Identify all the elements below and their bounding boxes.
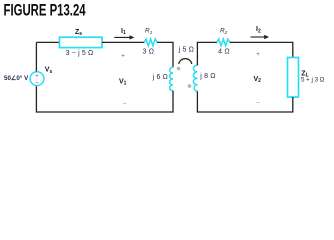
coupling dot secondary: [188, 84, 191, 87]
resistor R2: [217, 39, 230, 46]
svg-text:+: +: [256, 52, 260, 58]
current arrow I2: [251, 26, 270, 39]
load ZL box: [288, 58, 299, 98]
wire: source top to mesh1 top-left corner: [35, 42, 37, 71]
svg-text:V2: V2: [254, 76, 262, 84]
coupling dot primary: [177, 67, 180, 70]
svg-text:3 Ω: 3 Ω: [142, 49, 154, 56]
wire: Zs to R1: [102, 41, 144, 43]
svg-text:5 + j 3 Ω: 5 + j 3 Ω: [301, 77, 325, 84]
svg-text:FIGURE P13.24: FIGURE P13.24: [4, 2, 86, 21]
svg-text:−: −: [256, 100, 260, 107]
svg-text:R1: R1: [145, 28, 153, 36]
svg-text:j 5 Ω: j 5 Ω: [178, 46, 194, 53]
svg-text:Vs: Vs: [45, 67, 53, 75]
inductor L1 j6 coil: [170, 67, 173, 91]
wire: R1 to mesh1 top-right corner, down to coil: [157, 42, 173, 67]
resistor R1: [144, 39, 157, 46]
svg-text:−: −: [123, 101, 127, 108]
voltage source Vs: [30, 72, 44, 86]
wire: coil1 bottom to bottom-left loop: [36, 85, 173, 112]
svg-text:V1: V1: [119, 79, 127, 87]
svg-text:R2: R2: [220, 28, 228, 36]
mutual coupling arc j5: [179, 59, 192, 64]
svg-text:j 8 Ω: j 8 Ω: [199, 73, 215, 80]
inductor L2 j8 coil: [193, 65, 197, 91]
svg-text:3 − j 5 Ω: 3 − j 5 Ω: [66, 50, 94, 57]
impedance Zs box: [60, 37, 103, 47]
wire: mesh1 top-left segment: [36, 41, 59, 43]
svg-text:−: −: [35, 79, 39, 86]
wire: ZL bottom to mesh2 bottom-left, up to coil2: [197, 91, 292, 112]
svg-text:50∠0° V: 50∠0° V: [4, 75, 29, 82]
svg-text:4 Ω: 4 Ω: [218, 49, 230, 56]
svg-text:I1: I1: [121, 28, 126, 36]
svg-text:+: +: [121, 54, 125, 60]
wire: coil2 top to R2: [197, 42, 217, 65]
current arrow I1: [114, 28, 134, 40]
svg-text:Zs: Zs: [75, 29, 82, 37]
wire: R2 to mesh2 top-right corner down to ZL: [230, 42, 293, 57]
svg-text:I2: I2: [256, 26, 261, 34]
svg-text:j 6 Ω: j 6 Ω: [152, 74, 168, 81]
